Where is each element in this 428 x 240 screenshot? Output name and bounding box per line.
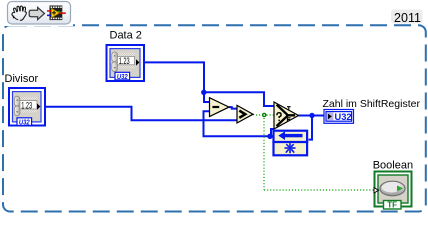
svg-text:Divisor: Divisor <box>5 73 39 85</box>
svg-text:2011: 2011 <box>394 11 421 25</box>
svg-text:1.23: 1.23 <box>21 100 32 111</box>
svg-text:Data 2: Data 2 <box>110 30 142 42</box>
svg-text:U32: U32 <box>117 72 128 81</box>
svg-text:TF: TF <box>387 201 397 210</box>
svg-text:U32: U32 <box>335 112 352 123</box>
svg-text:1.23: 1.23 <box>119 56 130 67</box>
svg-text:U32: U32 <box>19 117 30 126</box>
svg-text:Boolean: Boolean <box>373 159 413 171</box>
svg-text:Zahl im ShiftRegister: Zahl im ShiftRegister <box>323 98 421 110</box>
